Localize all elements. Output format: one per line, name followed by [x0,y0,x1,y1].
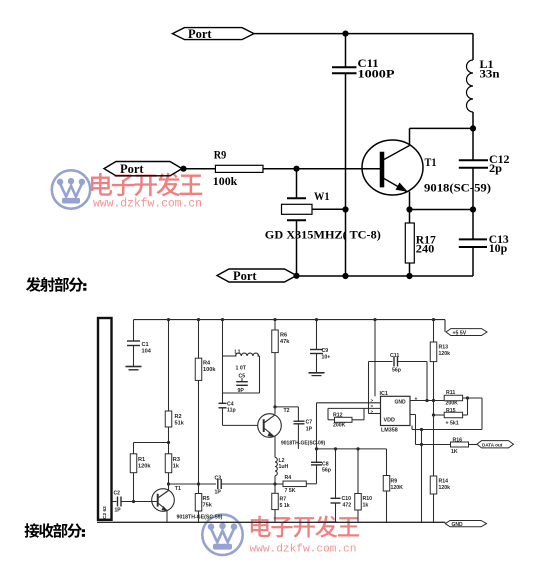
svg-text:T2: T2 [284,408,290,414]
svg-text:R14: R14 [439,479,449,485]
svg-text:2p: 2p [489,161,502,175]
svg-text:R4: R4 [203,361,211,367]
svg-text:C1: C1 [142,342,149,348]
svg-text:200K: 200K [333,423,346,429]
svg-text:240: 240 [416,242,435,256]
svg-text:1K: 1K [451,449,458,455]
svg-text:1k: 1k [363,503,369,509]
svg-text:R16: R16 [453,438,463,444]
svg-text:www.dzkfw.com.cn: www.dzkfw.com.cn [93,198,202,211]
svg-text:C2 62: C2 62 [102,506,108,519]
svg-text:1uH: 1uH [279,464,289,470]
svg-text:R9: R9 [391,479,398,485]
svg-text:1000P: 1000P [358,67,395,81]
svg-text:+: + [415,397,418,403]
svg-text:51k: 51k [175,421,185,427]
svg-text:+ 5k1: + 5k1 [446,421,459,427]
svg-text:LM358: LM358 [381,428,398,434]
svg-text:100k: 100k [203,367,216,373]
svg-text:>: > [371,409,374,414]
svg-text:DATA out: DATA out [482,442,503,447]
svg-text:9P: 9P [238,388,245,394]
svg-text:R6: R6 [280,333,287,339]
svg-text:R7: R7 [280,497,287,503]
svg-text:L1: L1 [235,350,241,356]
svg-text:56p: 56p [392,368,401,374]
svg-text:C2: C2 [114,491,121,497]
svg-text:>: > [371,398,374,403]
svg-text:C9: C9 [322,348,329,354]
svg-text:R13: R13 [439,345,449,351]
svg-text:VDD: VDD [384,418,395,424]
svg-text:R9: R9 [214,148,227,162]
svg-text:R5: R5 [203,496,210,502]
svg-text:R11: R11 [446,390,455,396]
svg-text:7 5K: 7 5K [285,488,296,494]
svg-text:100k: 100k [213,174,238,188]
svg-text:Port: Port [233,269,257,283]
svg-text:R12: R12 [333,413,343,419]
svg-text:1 0T: 1 0T [236,366,247,372]
svg-text:C3: C3 [215,476,222,482]
svg-text:1P: 1P [306,427,313,433]
svg-text:120k: 120k [439,485,451,491]
svg-text:472: 472 [343,503,352,509]
svg-text:>: > [371,404,374,409]
svg-text:10+: 10+ [322,355,331,361]
svg-text:11p: 11p [227,408,236,414]
svg-text:IC1: IC1 [380,391,388,397]
svg-text:200K: 200K [446,401,459,407]
svg-text:T1: T1 [175,486,181,492]
svg-text:120k: 120k [138,464,151,470]
svg-text:5 1k: 5 1k [280,503,290,509]
svg-text:1P: 1P [215,490,222,496]
svg-text:Port: Port [188,27,212,41]
svg-text:C11: C11 [390,353,399,359]
svg-text:47k: 47k [280,339,290,345]
svg-text:R1: R1 [138,457,145,463]
svg-text:GD X315MHZ( TC-8): GD X315MHZ( TC-8) [265,227,381,241]
svg-text:10p: 10p [489,241,508,255]
svg-text:R15: R15 [446,408,456,414]
svg-text:W1: W1 [314,189,330,203]
svg-text:R4: R4 [285,475,292,481]
svg-text:C5: C5 [239,374,246,380]
svg-text:56p: 56p [322,468,331,474]
svg-text:www.dzkfw.com.cn: www.dzkfw.com.cn [250,544,357,556]
svg-text:R2: R2 [175,414,182,420]
svg-text:+5 5V: +5 5V [453,330,467,336]
svg-text:R10: R10 [363,496,373,502]
svg-text:1k: 1k [173,464,180,470]
svg-text:120K: 120K [391,485,404,491]
svg-text:Port: Port [120,162,144,176]
svg-text:33n: 33n [480,67,500,81]
svg-text:T1: T1 [425,155,437,169]
svg-text:GND: GND [395,400,407,406]
svg-text:9018TH-GE(SC-09): 9018TH-GE(SC-09) [281,441,326,447]
svg-text:9018TH-GE(SC-59): 9018TH-GE(SC-59) [177,515,223,521]
svg-text:1P: 1P [115,508,122,514]
svg-text:104: 104 [142,349,152,355]
svg-text:9018(SC-59): 9018(SC-59) [424,181,491,195]
svg-text:120k: 120k [439,351,451,357]
svg-text:75k: 75k [203,503,213,509]
svg-text:GND: GND [452,522,464,528]
svg-text:C7: C7 [306,420,313,426]
svg-text:C10: C10 [342,496,352,502]
svg-text:R3: R3 [173,457,180,463]
